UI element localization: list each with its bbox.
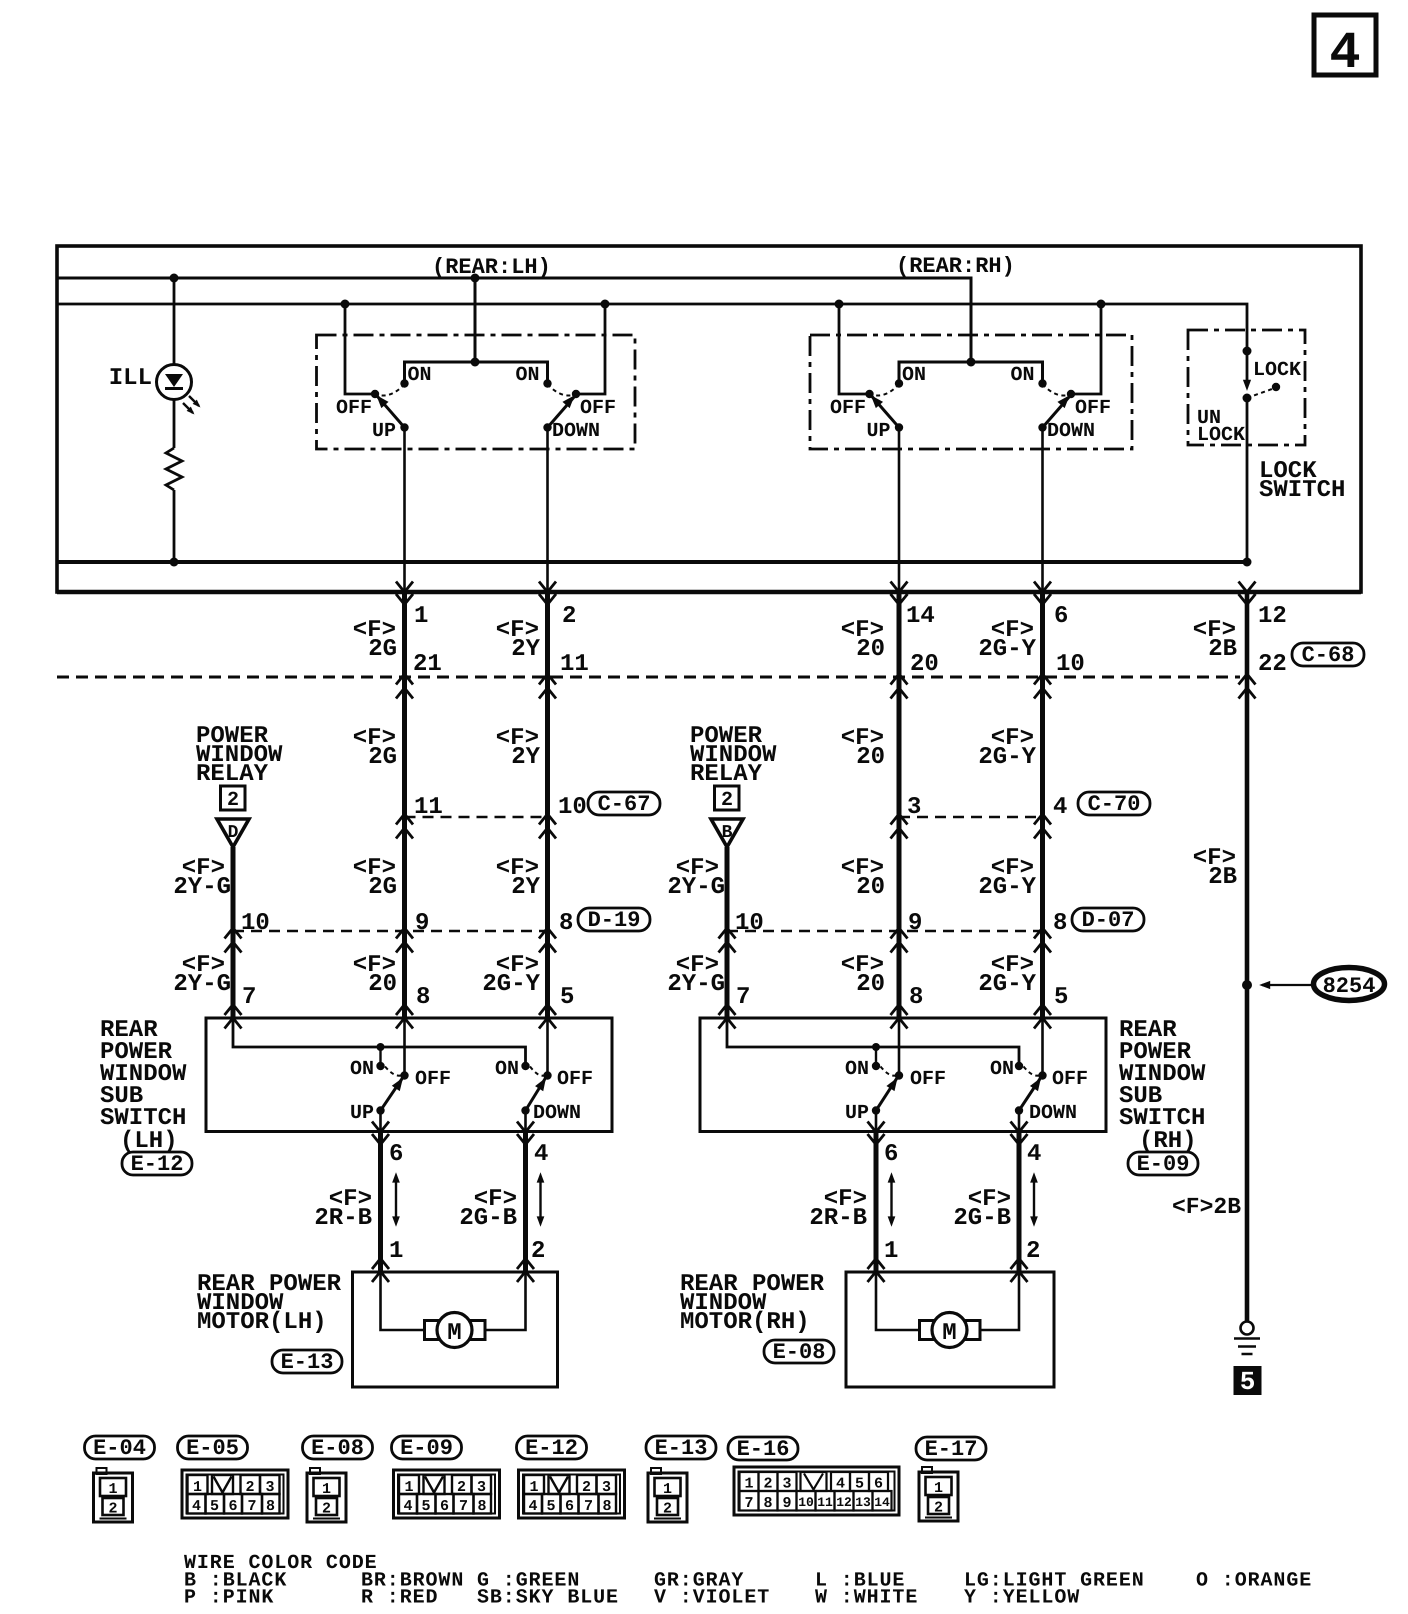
svg-text:8: 8	[559, 910, 573, 937]
chevrons at C-67 row	[396, 814, 556, 839]
chevrons at sub switch tops	[225, 1005, 1052, 1029]
svg-text:9: 9	[415, 910, 429, 937]
svg-text:C-70: C-70	[1088, 792, 1141, 817]
svg-text:20: 20	[856, 971, 885, 998]
connector row C-67 (dashed)	[405, 816, 548, 819]
svg-text:6: 6	[1054, 603, 1068, 630]
wire LH DOWN output	[546, 428, 549, 593]
svg-text:OFF: OFF	[1075, 397, 1111, 420]
svg-text:4: 4	[534, 1141, 548, 1168]
connector E-12 tag	[517, 1436, 587, 1461]
svg-text:20: 20	[910, 651, 939, 678]
svg-text:2G: 2G	[368, 874, 397, 901]
svg-text:8: 8	[416, 984, 430, 1011]
svg-text:2G-Y: 2G-Y	[978, 744, 1036, 771]
svg-text:4: 4	[1053, 794, 1067, 821]
junction sub LH feed	[377, 1043, 385, 1051]
switch RH window (dash-dot enclosure)	[810, 335, 1132, 449]
svg-text:E-09: E-09	[400, 1436, 453, 1461]
connector E-04 icon	[94, 1468, 133, 1522]
connector row D-19 (dashed)	[233, 930, 548, 933]
junction lock wire / lower bus	[1243, 558, 1252, 567]
svg-text:1: 1	[884, 1238, 898, 1265]
connector E-08 icon	[307, 1468, 346, 1522]
wire sub LH down to motor (heavy)	[523, 1132, 528, 1273]
connector row C-70 (dashed)	[899, 816, 1043, 819]
svg-text:2G-Y: 2G-Y	[978, 636, 1036, 663]
svg-text:8254: 8254	[1323, 974, 1376, 999]
connector C-70 tag	[1078, 792, 1150, 817]
svg-text:OFF: OFF	[1052, 1068, 1088, 1091]
junction ILL bottom	[170, 558, 179, 567]
svg-text:V :VIOLET: V :VIOLET	[654, 1587, 770, 1610]
connector C-67 tag	[588, 792, 660, 817]
svg-text:ON: ON	[845, 1058, 869, 1081]
svg-text:E-12: E-12	[525, 1436, 578, 1461]
svg-text:2Y: 2Y	[511, 874, 540, 901]
svg-text:Y :YELLOW: Y :YELLOW	[964, 1587, 1080, 1610]
svg-text:B: B	[722, 823, 733, 843]
svg-text:OFF: OFF	[910, 1068, 946, 1091]
svg-text:2R-B: 2R-B	[809, 1205, 867, 1232]
direction arrow (LH up wire)	[392, 1172, 400, 1227]
svg-text:E-08: E-08	[773, 1340, 826, 1365]
svg-text:UP: UP	[845, 1102, 869, 1125]
connector E-12 tag (sub LH)	[122, 1152, 192, 1177]
svg-text:2B: 2B	[1208, 864, 1237, 891]
wire resistor to lower bus	[173, 490, 176, 562]
svg-text:2: 2	[721, 789, 733, 812]
box bottom heavy edge	[57, 590, 1361, 594]
sub switch RH ON contacts	[872, 1062, 880, 1070]
switch LH window (dash-dot enclosure)	[317, 335, 636, 449]
wire LH common drop	[474, 278, 477, 362]
connector E-09 tag	[392, 1436, 462, 1461]
svg-text:W :WHITE: W :WHITE	[815, 1587, 918, 1610]
connector E-08 tag (motor RH)	[764, 1340, 834, 1365]
sub switch LH ON contacts	[376, 1062, 384, 1070]
svg-text:SB:SKY BLUE: SB:SKY BLUE	[477, 1587, 619, 1610]
svg-text:8: 8	[1053, 910, 1067, 937]
sub switch LH up lever	[381, 1078, 403, 1111]
connector E-13 tag (motor LH)	[272, 1350, 342, 1375]
svg-text:UP: UP	[350, 1102, 374, 1125]
svg-text:E-08: E-08	[311, 1436, 364, 1461]
svg-text:21: 21	[413, 651, 442, 678]
connector E-17 icon	[919, 1467, 958, 1521]
sub switch LH internal feed wire	[233, 1018, 526, 1063]
svg-text:OFF: OFF	[336, 397, 372, 420]
lock switch contacts	[1243, 347, 1281, 403]
svg-text:OFF: OFF	[415, 1068, 451, 1091]
svg-text:D-19: D-19	[588, 908, 641, 933]
svg-text:R :RED: R :RED	[361, 1587, 438, 1610]
svg-text:2: 2	[531, 1238, 545, 1265]
svg-text:ON: ON	[515, 364, 539, 387]
svg-text:4: 4	[1027, 1141, 1041, 1168]
svg-text:2R-B: 2R-B	[314, 1205, 372, 1232]
connector row D-07 (dashed)	[727, 930, 1043, 933]
svg-text:MOTOR(LH): MOTOR(LH)	[197, 1309, 327, 1336]
svg-text:5: 5	[1054, 984, 1068, 1011]
svg-text:2G-Y: 2G-Y	[978, 874, 1036, 901]
svg-text:20: 20	[856, 874, 885, 901]
svg-text:DOWN: DOWN	[533, 1102, 581, 1125]
junction ILL top	[170, 274, 179, 283]
svg-text:7: 7	[736, 984, 750, 1011]
svg-text:2Y-G: 2Y-G	[173, 874, 231, 901]
direction arrow (RH up wire)	[888, 1172, 896, 1227]
connector chevrons at switch base	[396, 582, 1256, 605]
chevrons at C-68 row	[396, 674, 1256, 699]
resistor (ILL dropping resistor)	[166, 448, 182, 490]
wire RH UP output	[898, 428, 901, 593]
wire bus line 4 (lower bus)	[57, 560, 1247, 564]
svg-text:D: D	[228, 823, 239, 843]
svg-text:2G: 2G	[368, 636, 397, 663]
svg-text:2: 2	[227, 789, 239, 812]
wire sub RH down to motor (heavy)	[1017, 1132, 1022, 1273]
chevrons below sub switches	[372, 1122, 1028, 1145]
junction sub RH feed	[872, 1043, 880, 1051]
svg-text:SWITCH: SWITCH	[1259, 477, 1345, 504]
sub switch LH output wires	[381, 1111, 526, 1132]
relay RH triangle B	[711, 819, 743, 847]
svg-text:2Y-G: 2Y-G	[667, 971, 725, 998]
sub switch RH wire 5 drop	[1041, 1018, 1044, 1076]
junction 8254 callout on wire E	[1242, 980, 1252, 990]
wire bus line 3	[57, 304, 1247, 351]
svg-text:D-07: D-07	[1082, 908, 1135, 933]
svg-text:ON: ON	[990, 1058, 1014, 1081]
wire lock switch output	[1246, 398, 1249, 562]
sub switch RH down lever	[1019, 1078, 1041, 1111]
svg-text:5: 5	[1240, 1367, 1256, 1397]
svg-text:2B: 2B	[1208, 636, 1237, 663]
svg-text:2G-B: 2G-B	[953, 1205, 1011, 1232]
svg-text:14: 14	[906, 603, 935, 630]
connector E-05 tag	[178, 1436, 248, 1461]
svg-text:E-05: E-05	[186, 1436, 239, 1461]
relay LH terminal 2 box	[221, 786, 246, 812]
svg-text:UP: UP	[866, 420, 890, 443]
connector E-04 tag	[85, 1436, 155, 1461]
svg-text:(REAR:LH): (REAR:LH)	[432, 255, 551, 280]
wire sub RH up to motor (heavy)	[874, 1132, 879, 1273]
connector E-09 icon	[394, 1470, 500, 1518]
rear power window sub switch RH box	[700, 1018, 1106, 1132]
svg-text:ON: ON	[495, 1058, 519, 1081]
sub switch RH OFF contact (up side)	[895, 1071, 903, 1079]
svg-text:22: 22	[1258, 651, 1287, 678]
wire RH common drop	[967, 358, 976, 367]
svg-text:12: 12	[1258, 603, 1287, 630]
svg-text:10: 10	[1056, 651, 1085, 678]
rear power window motor RH box	[846, 1272, 1054, 1387]
svg-text:20: 20	[856, 636, 885, 663]
svg-text:6: 6	[389, 1141, 403, 1168]
connector D-07 tag	[1072, 908, 1144, 933]
svg-text:E-13: E-13	[281, 1350, 334, 1375]
svg-text:2Y: 2Y	[511, 744, 540, 771]
svg-text:10: 10	[735, 910, 764, 937]
svg-text:DOWN: DOWN	[1047, 420, 1095, 443]
sub switch LH down lever	[526, 1078, 546, 1111]
svg-text:1: 1	[389, 1238, 403, 1265]
svg-text:RELAY: RELAY	[690, 761, 763, 788]
wire sub LH up to motor (heavy)	[378, 1132, 383, 1273]
main switch assembly outer box	[57, 246, 1361, 592]
rear power window motor LH box	[353, 1272, 558, 1387]
connector E-08 tag	[303, 1436, 373, 1461]
sub switch RH up lever	[876, 1078, 897, 1111]
svg-text:OFF: OFF	[580, 397, 616, 420]
relay RH terminal 2 box	[715, 786, 740, 812]
svg-text:DOWN: DOWN	[552, 420, 600, 443]
svg-text:2: 2	[562, 603, 576, 630]
sub switch LH wire 8 drop	[403, 1018, 406, 1076]
connector E-13 icon	[648, 1468, 687, 1522]
svg-text:20: 20	[368, 971, 397, 998]
motor LH symbol	[425, 1313, 486, 1348]
rear power window sub switch LH box	[206, 1018, 612, 1132]
svg-text:9: 9	[908, 910, 922, 937]
svg-text:E-13: E-13	[655, 1436, 708, 1461]
sub switch LH OFF contact (up side)	[400, 1071, 408, 1079]
chevrons at C-70 row	[891, 814, 1052, 839]
svg-text:M: M	[942, 1320, 956, 1347]
svg-text:10: 10	[241, 910, 270, 937]
wire A (LH up run, heavy)	[402, 592, 407, 1018]
svg-text:LOCK: LOCK	[1197, 424, 1245, 447]
svg-text:7: 7	[242, 984, 256, 1011]
sub switch RH output wires	[876, 1111, 1019, 1132]
lamp ILL symbol	[157, 365, 203, 417]
lock switch (dash-dot enclosure)	[1188, 330, 1305, 445]
switch LH DOWN-side contacts	[543, 300, 609, 432]
svg-text:2G: 2G	[368, 744, 397, 771]
svg-text:E-16: E-16	[737, 1437, 790, 1462]
page ref 5 box	[1234, 1366, 1262, 1397]
svg-text:E-09: E-09	[1137, 1152, 1190, 1177]
direction arrow (LH down wire)	[537, 1172, 545, 1227]
wire relay RH output (heavy)	[725, 847, 730, 1018]
switch LH common bar	[405, 362, 548, 380]
sub switch LH wire 5 drop	[546, 1018, 549, 1076]
svg-text:20: 20	[856, 744, 885, 771]
svg-text:2G-B: 2G-B	[459, 1205, 517, 1232]
connector E-16 tag	[728, 1437, 798, 1462]
sub switch RH wire 8 drop	[898, 1018, 901, 1076]
wire color code legend	[184, 1552, 1312, 1610]
svg-text:ON: ON	[1010, 364, 1034, 387]
svg-text:2Y: 2Y	[511, 636, 540, 663]
wire RH DOWN output	[1041, 428, 1044, 593]
sub switch RH OFF contact (down side)	[1038, 1071, 1046, 1079]
svg-text:C-68: C-68	[1302, 643, 1355, 668]
lamp ILL wire	[173, 278, 176, 448]
chevrons above motors	[372, 1259, 1028, 1283]
chevrons at D-19 row	[225, 928, 557, 953]
svg-text:2G-Y: 2G-Y	[482, 971, 540, 998]
switch RH UP-side contacts	[835, 300, 904, 432]
svg-text:RELAY: RELAY	[196, 761, 269, 788]
svg-text:E-17: E-17	[925, 1437, 978, 1462]
svg-text:2G-Y: 2G-Y	[978, 971, 1036, 998]
svg-text:MOTOR(RH): MOTOR(RH)	[680, 1309, 810, 1336]
switch RH DOWN-side contacts	[1038, 300, 1105, 432]
svg-text:2Y-G: 2Y-G	[173, 971, 231, 998]
connector E-05 icon	[182, 1470, 288, 1518]
svg-text:UP: UP	[372, 420, 396, 443]
svg-text:OFF: OFF	[830, 397, 866, 420]
connector E-12 icon	[519, 1470, 625, 1518]
connector C-68 tag	[1292, 643, 1364, 668]
sub switch LH OFF contact (down side)	[543, 1071, 551, 1079]
svg-text:6: 6	[884, 1141, 898, 1168]
callout 8254	[1259, 968, 1384, 1001]
svg-text:M: M	[447, 1320, 461, 1347]
svg-text:8: 8	[909, 984, 923, 1011]
wire bus line B+ (second bus)	[57, 278, 971, 362]
svg-text:(REAR:RH): (REAR:RH)	[896, 254, 1015, 279]
svg-text:P :PINK: P :PINK	[184, 1587, 274, 1610]
switch LH UP-side contacts	[341, 300, 409, 432]
svg-text:10: 10	[558, 794, 587, 821]
chevrons at D-07 row	[719, 928, 1052, 953]
connector E-17 tag	[916, 1437, 986, 1462]
wire B (LH down run, heavy)	[545, 592, 550, 1018]
svg-text:O :ORANGE: O :ORANGE	[1196, 1570, 1312, 1593]
svg-text:ON: ON	[350, 1058, 374, 1081]
direction arrow (RH down wire)	[1030, 1172, 1038, 1227]
wire relay LH output (heavy)	[231, 847, 236, 1018]
switch RH common bar	[899, 362, 1043, 380]
svg-text:E-04: E-04	[93, 1436, 146, 1461]
connector D-19 tag	[578, 908, 650, 933]
wire C (RH up run, heavy)	[897, 592, 902, 1018]
connector E-13 tag	[646, 1436, 716, 1461]
svg-text:ON: ON	[408, 364, 432, 387]
svg-text:11: 11	[560, 651, 589, 678]
motor LH wires	[381, 1272, 526, 1330]
wire LH UP output	[403, 428, 406, 593]
svg-text:2: 2	[1026, 1238, 1040, 1265]
svg-text:OFF: OFF	[557, 1068, 593, 1091]
svg-text:<F>2B: <F>2B	[1172, 1194, 1241, 1220]
relay LH triangle D	[217, 819, 249, 847]
page number 4 box	[1314, 15, 1376, 83]
svg-text:DOWN: DOWN	[1029, 1102, 1077, 1125]
svg-text:C-67: C-67	[598, 792, 651, 817]
wire E (2B ground run, heavy)	[1245, 592, 1250, 1321]
svg-text:E-12: E-12	[131, 1152, 184, 1177]
svg-text:ILL: ILL	[109, 365, 152, 392]
connector row C-68 (dashed)	[57, 676, 1240, 679]
svg-text:1: 1	[414, 603, 428, 630]
wire D (RH down run, heavy)	[1040, 592, 1045, 1018]
svg-text:ON: ON	[902, 364, 926, 387]
ground symbol	[1234, 1322, 1260, 1355]
connector E-09 tag (sub RH)	[1128, 1152, 1198, 1177]
svg-text:2Y-G: 2Y-G	[667, 874, 725, 901]
motor RH wires	[876, 1272, 1019, 1330]
motor RH symbol	[920, 1313, 981, 1348]
connector E-16 icon	[734, 1467, 899, 1515]
svg-text:LOCK: LOCK	[1253, 359, 1301, 382]
svg-text:4: 4	[1329, 24, 1360, 83]
svg-text:5: 5	[560, 984, 574, 1011]
sub switch RH internal feed wire	[727, 1018, 1019, 1063]
